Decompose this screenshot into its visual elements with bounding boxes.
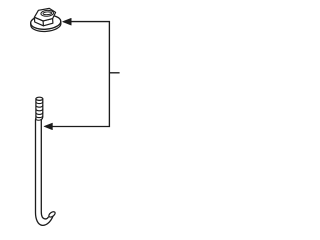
- flange nut N1: [30, 8, 61, 32]
- thread crest 4: [36, 113, 43, 115]
- hole chamfer ellipse: [41, 10, 54, 17]
- tick on leader line: [109, 72, 119, 74]
- hook tip end face: [48, 211, 56, 218]
- hex body side faces: [34, 17, 53, 26]
- J-bolt B1: [36, 97, 57, 225]
- thread crest 3: [36, 109, 43, 111]
- hex front vertical edge: [42, 21, 44, 26]
- shank right edge and inner hook: [41, 120, 48, 219]
- arrowhead to nut: [63, 18, 72, 25]
- hex top face: [34, 8, 55, 21]
- arrowhead to bolt: [44, 123, 52, 130]
- thread bottom bowl: [36, 118, 42, 120]
- leader bracket line: [52, 22, 109, 127]
- thread crest 1: [36, 102, 43, 104]
- thread top end face: [36, 97, 43, 100]
- threaded top right edge: [41, 99, 43, 120]
- thread crest 2: [36, 105, 43, 107]
- flange rim thickness: [31, 21, 62, 32]
- thread crest 5: [36, 116, 43, 118]
- shank left edge and outer hook: [36, 120, 54, 226]
- threaded top left edge: [35, 99, 37, 120]
- hole inner ellipse: [43, 12, 52, 15]
- flange washer ellipse: [30, 14, 61, 30]
